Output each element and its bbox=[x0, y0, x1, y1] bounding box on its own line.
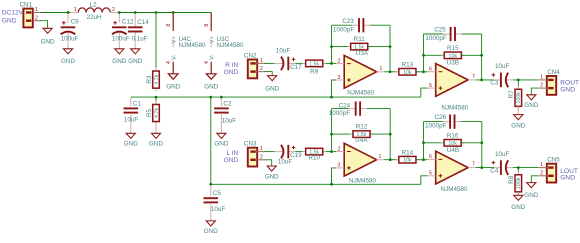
wire to C24 bbox=[332, 108, 349, 110]
wire C3 to R OUT node bbox=[513, 79, 538, 81]
svg-text:4.7k: 4.7k bbox=[154, 74, 160, 84]
wire R13 to U3B pin 6 bbox=[416, 71, 428, 73]
svg-text:100uF: 100uF bbox=[61, 36, 79, 43]
resistor R16 10k bbox=[441, 133, 464, 147]
svg-text:C24: C24 bbox=[339, 102, 351, 109]
ground C5 bbox=[204, 221, 218, 235]
wire R11 right bbox=[368, 46, 390, 48]
wire feedback left vertical U3A bbox=[331, 25, 333, 63]
svg-text:R IN: R IN bbox=[225, 62, 238, 69]
wire R OUT to R7 bbox=[517, 80, 519, 87]
svg-text:1: 1 bbox=[540, 162, 543, 168]
svg-text:1: 1 bbox=[260, 146, 263, 152]
wire U3B output bbox=[476, 79, 494, 81]
connector CN3 L input bbox=[224, 141, 266, 167]
junction C9 node bbox=[67, 11, 70, 14]
wire U4A pin 3 to VREF bbox=[332, 168, 337, 184]
capacitor C14 0.1uF bbox=[128, 19, 149, 42]
wire U3A pin 3 to VREF bbox=[332, 80, 337, 97]
capacitor C19 10uF bbox=[274, 145, 302, 166]
svg-text:1000pF: 1000pF bbox=[329, 110, 351, 117]
svg-text:L IN: L IN bbox=[226, 150, 238, 157]
svg-text:R12: R12 bbox=[356, 124, 368, 131]
svg-text:10uF: 10uF bbox=[495, 151, 510, 158]
svg-text:C9: C9 bbox=[71, 19, 80, 26]
svg-text:GND: GND bbox=[214, 141, 228, 148]
svg-text:NJM4580: NJM4580 bbox=[347, 89, 374, 96]
wire R10 to U4A pin 2 bbox=[326, 151, 336, 153]
capacitor C26 1000pF bbox=[425, 114, 462, 130]
junction R16 right bbox=[480, 141, 483, 144]
svg-text:NJM4580: NJM4580 bbox=[441, 186, 468, 193]
wire CN3 pin 2 to ground bbox=[265, 160, 272, 166]
svg-text:1000pF: 1000pF bbox=[425, 123, 447, 130]
svg-text:1: 1 bbox=[35, 7, 38, 13]
wire CN2 pin 2 to ground bbox=[265, 72, 273, 76]
svg-text:DC12V: DC12V bbox=[2, 10, 24, 17]
junction U3A inverting input node bbox=[330, 62, 333, 65]
svg-text:GND: GND bbox=[224, 157, 239, 164]
connector CN4 R output bbox=[539, 69, 579, 95]
svg-text:10uF: 10uF bbox=[278, 158, 293, 165]
svg-text:GND: GND bbox=[511, 204, 525, 211]
capacitor C12 100uF bbox=[112, 19, 134, 43]
ground R5 bbox=[149, 133, 163, 147]
svg-text:NJM4580: NJM4580 bbox=[441, 104, 468, 111]
svg-text:1000pF: 1000pF bbox=[333, 27, 355, 34]
junction R11 right bbox=[389, 45, 392, 48]
svg-text:2: 2 bbox=[338, 58, 341, 64]
svg-text:V+: V+ bbox=[172, 35, 178, 43]
junction VREF node at divider bbox=[155, 96, 158, 99]
svg-text:C12: C12 bbox=[122, 19, 134, 26]
junction VCC to U4C bbox=[172, 11, 175, 14]
svg-text:GND: GND bbox=[149, 141, 163, 148]
svg-text:10k: 10k bbox=[403, 70, 412, 76]
svg-text:0.1uF: 0.1uF bbox=[131, 36, 147, 43]
junction R12 left bbox=[330, 133, 333, 136]
wire CN1 pin 2 to ground bbox=[40, 21, 48, 29]
wire R5 to ground bbox=[155, 125, 157, 133]
ground C14 bbox=[128, 49, 142, 65]
wire to C26 bbox=[424, 121, 444, 123]
wire L2 to C12 node bbox=[118, 12, 211, 14]
svg-text:10uF: 10uF bbox=[495, 63, 510, 70]
wire feedback right vertical U4A bbox=[389, 109, 391, 160]
capacitor C3 10uF bbox=[490, 63, 513, 87]
svg-text:100k: 100k bbox=[516, 177, 522, 189]
svg-text:R9: R9 bbox=[310, 68, 319, 75]
svg-text:U4A: U4A bbox=[355, 137, 368, 144]
wire to C25 bbox=[424, 33, 444, 35]
op-amp U3B bbox=[428, 59, 476, 111]
svg-text:R10: R10 bbox=[308, 154, 320, 161]
resistor R3 4.7k bbox=[146, 68, 160, 92]
svg-text:8: 8 bbox=[204, 24, 210, 27]
wire CN5 pin 2 to ground bbox=[531, 176, 538, 183]
ground CN1 bbox=[41, 28, 55, 45]
svg-text:C4: C4 bbox=[490, 167, 499, 174]
wire lead C1 bbox=[130, 97, 132, 133]
junction R11 left bbox=[330, 45, 333, 48]
wire R15 right bbox=[461, 54, 481, 56]
wire VCC down to R3 bbox=[155, 13, 157, 69]
svg-text:1: 1 bbox=[540, 75, 543, 81]
wire L OUT to R8 bbox=[517, 168, 519, 173]
resistor R11 1.5k bbox=[348, 36, 371, 50]
wire feedback right vertical U3B bbox=[481, 34, 483, 80]
svg-text:C25: C25 bbox=[434, 26, 446, 33]
svg-text:GND: GND bbox=[524, 102, 538, 109]
svg-text:4: 4 bbox=[166, 61, 172, 64]
junction pin3 VREF upper bbox=[330, 96, 333, 99]
svg-text:L2: L2 bbox=[89, 1, 97, 8]
svg-text:1.5k: 1.5k bbox=[309, 61, 319, 67]
junction R12 right bbox=[389, 133, 392, 136]
svg-text:CN1: CN1 bbox=[20, 2, 33, 9]
svg-text:10uF: 10uF bbox=[276, 47, 291, 54]
svg-text:5: 5 bbox=[429, 171, 432, 177]
svg-text:NJM4580: NJM4580 bbox=[179, 42, 206, 49]
svg-text:GND: GND bbox=[204, 84, 218, 91]
svg-text:10uF: 10uF bbox=[124, 117, 139, 124]
resistor R7 100k bbox=[508, 86, 522, 110]
resistor R10 1.5k bbox=[303, 148, 326, 161]
resistor R15 10k bbox=[441, 45, 464, 59]
ground C2 bbox=[214, 133, 228, 147]
svg-text:R11: R11 bbox=[354, 36, 366, 43]
svg-text:GND: GND bbox=[560, 86, 575, 93]
connector CN1 bbox=[2, 2, 41, 28]
junction C14 node bbox=[134, 11, 137, 14]
wire C23 right bbox=[370, 24, 390, 26]
op-amp power U4C bbox=[166, 13, 206, 91]
wire U4B pin 5 to VREF bbox=[421, 176, 428, 185]
wire R16 right bbox=[461, 142, 482, 144]
svg-text:V-: V- bbox=[210, 55, 216, 61]
wire VREF down to lower rail bbox=[210, 97, 212, 184]
svg-text:C26: C26 bbox=[435, 114, 447, 121]
junction U3A output node bbox=[389, 70, 392, 73]
svg-text:GND: GND bbox=[112, 58, 126, 65]
wire U4B output bbox=[476, 167, 494, 169]
junction U4A inverting input node bbox=[330, 150, 333, 153]
svg-text:GND: GND bbox=[124, 141, 138, 148]
svg-text:2: 2 bbox=[540, 83, 543, 89]
svg-text:1: 1 bbox=[74, 7, 77, 13]
junction L OUT node bbox=[517, 166, 520, 169]
wire lead C12 bbox=[118, 14, 120, 49]
ground R8 bbox=[511, 195, 525, 211]
op-amp U3A bbox=[336, 50, 384, 96]
wire C17 to R9 bbox=[295, 62, 302, 64]
ground C9 bbox=[61, 49, 75, 65]
wire R9 to U3A pin 2 bbox=[326, 62, 336, 64]
wire VREF rail upper bbox=[131, 96, 421, 98]
svg-text:10uF: 10uF bbox=[211, 206, 226, 213]
capacitor C24 1000pF bbox=[329, 101, 368, 116]
svg-text:GND: GND bbox=[2, 17, 17, 24]
ground C12 bbox=[112, 49, 126, 65]
junction R OUT node bbox=[517, 79, 520, 82]
svg-text:V-: V- bbox=[172, 55, 178, 61]
capacitor C2 10uF bbox=[214, 100, 236, 124]
junction C12 node bbox=[118, 11, 121, 14]
ground R7 bbox=[511, 115, 525, 130]
op-amp U4B bbox=[428, 147, 476, 193]
capacitor C4 10uF bbox=[490, 151, 513, 175]
junction C2 node bbox=[220, 96, 223, 99]
wire R16 left bbox=[424, 142, 445, 144]
svg-text:C3: C3 bbox=[490, 80, 499, 87]
wire feedback left vertical U4B bbox=[423, 122, 425, 160]
svg-text:NJM4580: NJM4580 bbox=[217, 42, 244, 49]
wire VREF to R5 bbox=[155, 97, 157, 101]
capacitor C23 1000pF bbox=[333, 18, 371, 33]
junction pin3 VREF lower bbox=[330, 183, 333, 186]
ground CN4 bbox=[524, 95, 538, 109]
svg-text:10uF: 10uF bbox=[222, 117, 237, 124]
wire R12 left bbox=[332, 133, 354, 135]
svg-text:7: 7 bbox=[472, 162, 475, 168]
svg-text:R15: R15 bbox=[447, 45, 459, 52]
svg-text:U3B: U3B bbox=[447, 59, 459, 66]
svg-text:2: 2 bbox=[540, 170, 543, 176]
svg-text:GND: GND bbox=[265, 174, 279, 181]
wire lead C14 bbox=[134, 14, 136, 49]
svg-text:100k: 100k bbox=[516, 92, 522, 104]
svg-text:1: 1 bbox=[379, 154, 382, 160]
svg-text:C2: C2 bbox=[223, 100, 232, 107]
wire R8 to ground bbox=[517, 192, 519, 195]
svg-text:R3: R3 bbox=[146, 75, 153, 84]
resistor R8 100k bbox=[508, 171, 522, 195]
svg-text:GND: GND bbox=[61, 58, 75, 65]
svg-text:CN5: CN5 bbox=[547, 157, 560, 164]
wire R7 to ground bbox=[517, 106, 519, 114]
wire C4 to L OUT node bbox=[513, 167, 538, 169]
svg-text:CN3: CN3 bbox=[244, 141, 257, 148]
svg-text:C1: C1 bbox=[133, 100, 142, 107]
svg-text:GND: GND bbox=[128, 58, 142, 65]
wire lead C2 bbox=[220, 98, 222, 133]
resistor R12 1.5k bbox=[350, 124, 373, 139]
wire VREF rail lower bbox=[211, 183, 421, 185]
svg-text:R14: R14 bbox=[402, 149, 414, 156]
wire U3A output bbox=[384, 71, 399, 73]
svg-text:8: 8 bbox=[166, 24, 172, 27]
wire R14 to U4B pin 6 bbox=[416, 159, 428, 161]
svg-text:R7: R7 bbox=[508, 90, 515, 99]
junction R16 left bbox=[422, 141, 425, 144]
ground CN3 bbox=[265, 166, 279, 181]
junction R15 right bbox=[480, 54, 483, 57]
wire CN4 pin 2 to ground bbox=[531, 88, 538, 95]
svg-text:5: 5 bbox=[429, 83, 432, 89]
wire C26 right bbox=[461, 121, 482, 123]
junction VCC to bias divider bbox=[155, 11, 158, 14]
wire C25 right bbox=[462, 33, 482, 35]
wire CN3 pin 1 to C19 bbox=[264, 151, 275, 153]
svg-text:1000pF: 1000pF bbox=[425, 35, 447, 42]
wire U4A output bbox=[384, 159, 399, 161]
inductor L2 22uH bbox=[70, 1, 118, 21]
wire feedback left vertical U3B bbox=[423, 34, 425, 72]
wire C24 right bbox=[367, 108, 390, 110]
junction U3B output node bbox=[480, 79, 483, 82]
wire to C23 bbox=[332, 24, 353, 26]
svg-text:U3A: U3A bbox=[356, 50, 369, 57]
svg-text:GND: GND bbox=[511, 122, 525, 129]
svg-text:4.7k: 4.7k bbox=[154, 108, 160, 118]
svg-text:C14: C14 bbox=[137, 19, 149, 26]
wire R12 right bbox=[370, 133, 390, 135]
svg-text:GND: GND bbox=[560, 174, 575, 181]
svg-text:2: 2 bbox=[338, 146, 341, 152]
svg-text:2: 2 bbox=[260, 154, 263, 160]
junction U4A output node bbox=[389, 158, 392, 161]
ground CN5 bbox=[524, 183, 538, 199]
svg-text:GND: GND bbox=[41, 39, 55, 46]
junction VREF to lower rail bbox=[209, 96, 212, 99]
op-amp power U3C bbox=[204, 13, 244, 91]
svg-text:C5: C5 bbox=[213, 190, 222, 197]
wire CN2 pin 1 to C17 bbox=[264, 62, 275, 64]
svg-text:10k: 10k bbox=[403, 158, 412, 164]
svg-text:2: 2 bbox=[260, 66, 263, 72]
svg-text:GND: GND bbox=[524, 192, 538, 199]
capacitor C1 10uF bbox=[124, 100, 142, 123]
svg-text:3: 3 bbox=[338, 163, 341, 169]
wire lead C5 bbox=[210, 185, 212, 221]
wire R15 left bbox=[424, 54, 445, 56]
op-amp U4A bbox=[336, 137, 384, 185]
junction U4B inverting input node bbox=[422, 158, 425, 161]
svg-text:22uH: 22uH bbox=[86, 14, 102, 21]
wire C19 to R10 bbox=[295, 151, 302, 153]
svg-text:V+: V+ bbox=[210, 35, 216, 43]
wire U3B pin 5 to VREF bbox=[421, 88, 428, 97]
resistor R14 10k bbox=[396, 149, 419, 163]
wire feedback left vertical U4A bbox=[331, 109, 333, 152]
junction lower VREF rail at C5 bbox=[209, 183, 212, 186]
junction U3B inverting input node bbox=[422, 70, 425, 73]
svg-text:U4B: U4B bbox=[447, 147, 459, 154]
svg-text:CN2: CN2 bbox=[244, 53, 257, 60]
svg-text:GND: GND bbox=[166, 84, 180, 91]
svg-text:GND: GND bbox=[224, 69, 239, 76]
wire +12V from CN1 pin 1 bbox=[40, 12, 70, 14]
resistor R13 10k bbox=[396, 61, 419, 75]
capacitor C17 10uF bbox=[274, 47, 302, 71]
svg-text:10k: 10k bbox=[449, 53, 458, 59]
resistor R9 1.5k bbox=[303, 60, 326, 75]
wire lead C9 bbox=[67, 14, 69, 49]
svg-text:GND: GND bbox=[204, 228, 218, 235]
wire R11 left bbox=[332, 46, 351, 48]
svg-text:R8: R8 bbox=[508, 175, 515, 184]
wire feedback right vertical U4B bbox=[481, 122, 483, 168]
wire feedback right vertical U3A bbox=[389, 25, 391, 72]
capacitor C25 1000pF bbox=[425, 26, 462, 42]
svg-text:GND: GND bbox=[265, 86, 279, 93]
svg-text:10k: 10k bbox=[448, 141, 457, 147]
ground C1 bbox=[124, 133, 138, 147]
capacitor C9 100uF bbox=[61, 19, 80, 43]
svg-text:R16: R16 bbox=[447, 133, 459, 140]
capacitor C5 10uF bbox=[204, 190, 226, 213]
connector CN5 L output bbox=[539, 157, 578, 183]
junction R15 left bbox=[422, 54, 425, 57]
svg-text:4: 4 bbox=[204, 61, 210, 64]
svg-text:6: 6 bbox=[429, 67, 432, 73]
svg-text:3: 3 bbox=[338, 75, 341, 81]
svg-text:2: 2 bbox=[112, 7, 115, 13]
svg-text:NJM4580: NJM4580 bbox=[349, 178, 376, 185]
svg-text:C23: C23 bbox=[342, 18, 354, 25]
svg-text:C17: C17 bbox=[290, 64, 302, 71]
svg-text:2: 2 bbox=[35, 15, 38, 21]
svg-text:R5: R5 bbox=[146, 108, 153, 117]
svg-text:100uF: 100uF bbox=[112, 36, 130, 43]
svg-text:CN4: CN4 bbox=[547, 69, 560, 76]
svg-text:1: 1 bbox=[380, 66, 383, 72]
junction U4B output node bbox=[480, 166, 483, 169]
svg-text:1: 1 bbox=[260, 58, 263, 64]
svg-text:7: 7 bbox=[472, 74, 475, 80]
svg-text:R13: R13 bbox=[402, 61, 414, 68]
svg-text:6: 6 bbox=[429, 154, 432, 160]
resistor R5 4.7k bbox=[146, 101, 160, 125]
ground CN2 bbox=[265, 76, 279, 93]
connector CN2 R input bbox=[224, 53, 266, 79]
